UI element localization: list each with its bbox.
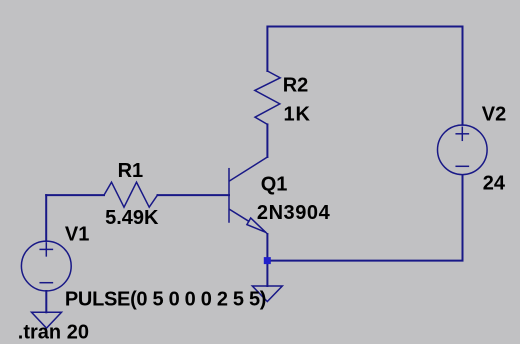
svg-text:R1: R1	[118, 160, 144, 182]
svg-text:2N3904: 2N3904	[257, 202, 331, 224]
svg-text:V2: V2	[482, 104, 506, 126]
svg-text:Q1: Q1	[261, 174, 288, 196]
svg-text:1K: 1K	[284, 104, 311, 126]
svg-text:.tran 20: .tran 20	[18, 322, 89, 344]
svg-text:R2: R2	[283, 75, 309, 97]
svg-text:V1: V1	[65, 224, 89, 246]
svg-text:5.49K: 5.49K	[105, 207, 159, 229]
svg-text:PULSE(0 5 0 0 0 2 5 5): PULSE(0 5 0 0 0 2 5 5)	[65, 289, 266, 311]
svg-text:24: 24	[483, 172, 506, 194]
